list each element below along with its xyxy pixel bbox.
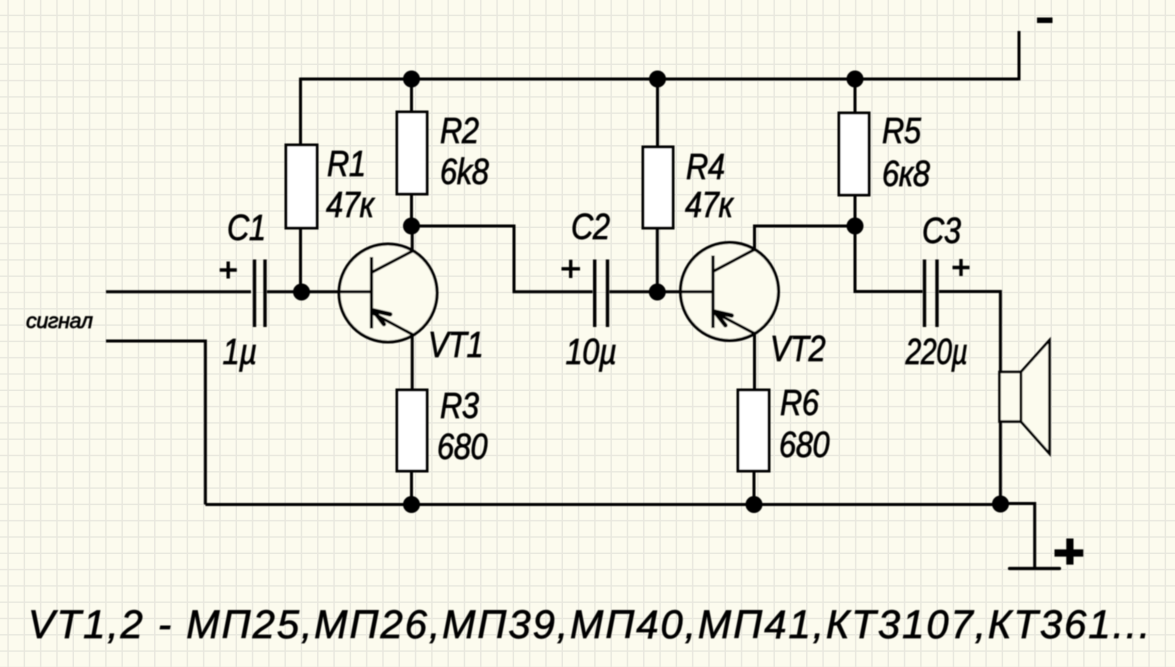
junction: R2 / VT1 collector node [403, 218, 420, 235]
wire: R4 top lead [656, 79, 659, 147]
plus polarity mark of C3 [953, 259, 970, 276]
junction: top rail / R2 [403, 71, 420, 88]
svg-text:R6: R6 [780, 384, 819, 424]
svg-text:C1: C1 [227, 209, 266, 249]
wire: R1 bottom lead [299, 228, 302, 292]
wire: R2 top lead [410, 79, 413, 112]
svg-text:R2: R2 [440, 112, 479, 152]
junction: bottom rail / speaker [992, 496, 1009, 513]
junction: C2 / R4 / VT2 base [649, 284, 666, 301]
resistor R1 [286, 145, 317, 228]
svg-text:6k8: 6k8 [440, 153, 489, 193]
svg-text:220µ: 220µ [905, 332, 968, 372]
svg-text:1µ: 1µ [223, 333, 257, 373]
junction: bottom rail / R3 [403, 496, 420, 513]
svg-text:сигнал: сигнал [26, 309, 93, 333]
resistor R6 [738, 390, 769, 471]
resistor R4 [643, 147, 673, 228]
plus terminal symbol [1055, 539, 1084, 565]
speaker [1000, 340, 1050, 453]
wire: R5 bottom lead [854, 195, 857, 226]
resistor R5 [839, 113, 869, 195]
svg-text:VT1: VT1 [428, 326, 483, 366]
svg-text:VT1,2 - МП25,МП26,МП39,МП40,МП: VT1,2 - МП25,МП26,МП39,МП40,МП41,КТ3107,… [28, 603, 1152, 647]
wire: negative supply top rail [300, 78, 1019, 81]
plus polarity mark of C2 [562, 260, 581, 278]
svg-text:6к8: 6к8 [882, 155, 930, 195]
wire: VT1 collector node to C2 [412, 226, 593, 292]
junction: bottom rail / R6 [746, 496, 763, 513]
junction: C1 / R1 / VT1 base [293, 284, 310, 301]
junction: top rail / R4 [649, 71, 666, 88]
capacitor C2 [595, 260, 608, 328]
svg-text:R5: R5 [882, 112, 921, 152]
wire: top rail riser to minus terminal [1018, 31, 1021, 80]
plus terminal bar [1010, 567, 1060, 570]
svg-text:47к: 47к [326, 186, 375, 226]
wire: R3 bottom lead [410, 471, 413, 505]
svg-text:R4: R4 [686, 148, 725, 188]
wire: VT2 emitter lead to R6 [753, 333, 756, 390]
wire: input signal line top [106, 290, 251, 293]
wire: R5 top lead [854, 79, 857, 113]
wire: C2 to VT2 base [610, 290, 714, 293]
junction: top rail / R5 [847, 71, 864, 88]
svg-text:C2: C2 [571, 208, 610, 248]
minus terminal symbol [1037, 18, 1053, 24]
wire: top rail down to R1 [299, 78, 302, 145]
wire: R5 node down to C3 [855, 226, 923, 292]
wire: input signal line bottom to ground rail [106, 341, 205, 505]
wire: R6 bottom lead [753, 471, 756, 505]
svg-text:10µ: 10µ [566, 333, 617, 373]
wire: bottom rail to plus terminal [1001, 504, 1035, 568]
capacitor C1 [255, 260, 266, 328]
plus polarity mark of C1 [220, 262, 237, 279]
wire: ground bottom rail [205, 503, 1000, 506]
svg-text:680: 680 [779, 426, 830, 466]
svg-text:C3: C3 [922, 212, 961, 252]
wire: R2 bottom lead [410, 194, 413, 226]
transistor VT1 [338, 244, 437, 342]
svg-text:680: 680 [437, 428, 488, 468]
junction: R5 / VT2 collector / C3 [847, 218, 864, 235]
wire: C3 to speaker [939, 292, 1000, 504]
wire: VT1 emitter lead to R3 [411, 334, 414, 390]
svg-text:VT2: VT2 [770, 330, 826, 370]
wire: VT2 collector to R5 node [755, 226, 856, 251]
wire: C1 to VT1 base [267, 290, 372, 293]
svg-text:47к: 47к [685, 186, 734, 226]
transistor VT2 [680, 243, 779, 341]
wire: VT1 collector lead [411, 226, 414, 252]
svg-text:R1: R1 [327, 145, 366, 185]
resistor R3 [397, 390, 427, 471]
svg-text:R3: R3 [440, 387, 479, 427]
capacitor C3 [925, 260, 938, 328]
wire: R4 bottom lead [656, 228, 659, 292]
resistor R2 [397, 112, 427, 194]
